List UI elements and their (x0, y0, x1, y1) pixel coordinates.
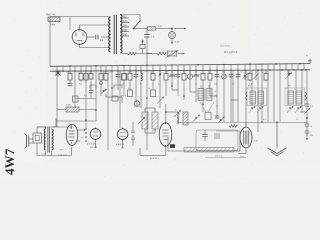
resistor R1 (157, 52, 166, 55)
wire anode 1 (79, 25, 81, 30)
svg-text:2M: 2M (103, 72, 106, 74)
wire avc link (216, 130, 240, 132)
field coil box (33, 133, 42, 143)
resistor R14 (195, 70, 197, 73)
svg-text:4k: 4k (99, 84, 101, 86)
svg-text:mw 1 2F: mw 1 2F (87, 144, 96, 146)
resistor R17 (249, 70, 251, 73)
svg-text:ECH 11 x: ECH 11 x (150, 158, 160, 160)
phone jack symbol (56, 71, 61, 76)
resistor R3 (80, 70, 82, 73)
column right of V2 (132, 122, 134, 130)
IF1 funnel (200, 102, 206, 112)
capacitor C1 (95, 35, 97, 40)
capacitor C8 (216, 70, 218, 74)
wire link f (231, 99, 238, 101)
svg-text:6,3V: 6,3V (158, 26, 163, 28)
svg-text:4W: 4W (310, 135, 313, 137)
resistor R5 (90, 70, 92, 73)
IF transformer IF3 (285, 88, 305, 106)
svg-text:50: 50 (310, 126, 312, 128)
wire grid line (177, 122, 307, 124)
wire link (75, 98, 96, 100)
resistor R2 (69, 70, 71, 73)
output tube V4 (66, 124, 78, 145)
trimmer C18 (304, 108, 310, 114)
potentiometer P2 (volume) (184, 148, 234, 153)
resistor R23 (hatched) (183, 112, 188, 125)
capacitor C19 (305, 123, 309, 125)
IF1 winding a (198, 89, 204, 101)
wire bottom frame (167, 137, 169, 151)
transformer T1 secondary (120, 15, 122, 54)
svg-text:0,1: 0,1 (310, 106, 313, 108)
resistor R18 (265, 70, 267, 73)
wire link d (190, 91, 196, 93)
svg-text:2M: 2M (89, 72, 92, 74)
IF2 trimmer b (259, 107, 261, 109)
resistor R6 (100, 70, 102, 73)
IF3 trimmer a (289, 107, 291, 109)
output transformer T2 winding a (44, 129, 46, 150)
IF2 entry (246, 92, 247, 100)
resistor R15 (202, 70, 204, 73)
potentiometer P1 (168, 51, 177, 56)
junction dots band (146, 97, 148, 99)
wire V2 stem (122, 140, 124, 149)
wire heater bus (136, 53, 157, 55)
loudspeaker LS (26, 136, 28, 147)
svg-text:8k: 8k (140, 84, 142, 86)
chassis frame (196, 130, 238, 151)
wire right column (306, 100, 308, 104)
IF transformer IF2 (247, 88, 267, 106)
svg-text:6,3V: 6,3V (175, 42, 180, 44)
wire T2 top (52, 126, 72, 128)
IF3 trimmer b (297, 107, 299, 109)
svg-text:1M: 1M (222, 72, 225, 74)
capacitor C2b (142, 40, 144, 45)
resistor R12 (171, 70, 173, 73)
svg-text:5k: 5k (195, 84, 197, 86)
capacitor C23 (block) (170, 144, 175, 148)
wire P1 arrow (178, 53, 185, 55)
wire rail junction ticks (56, 66, 58, 71)
svg-text:4W7: 4W7 (2, 148, 17, 175)
wire HT rail (50, 64, 310, 67)
wire V6 top (245, 123, 247, 128)
transformer voltage taps (122, 17, 130, 19)
transformer T1 primary (109, 17, 111, 52)
voltage selector switch S1 (134, 21, 141, 29)
inductor L2 (141, 73, 142, 81)
resistor R19 (112, 96, 118, 101)
resistor R20 (73, 96, 79, 102)
wire fuse drop (50, 16, 60, 18)
svg-text:DrV 1,2H 4 F: DrV 1,2H 4 F (224, 51, 238, 54)
wire AVC rail (50, 70, 310, 71)
trimmer T2 (159, 70, 161, 74)
wire C2 down (146, 37, 148, 65)
rail dots extra (62, 70, 64, 72)
inductor L1 (127, 52, 136, 55)
IF3 entry (305, 92, 306, 100)
svg-text:1n: 1n (216, 106, 218, 108)
svg-text:f1: f1 (215, 91, 217, 93)
trimmer capacitor C9 (223, 70, 225, 73)
wire bridge b (114, 85, 122, 89)
wire bridge a (90, 85, 96, 89)
capacitor C24 (89, 90, 93, 92)
resistor R21 (128, 90, 133, 97)
wire osc links (145, 107, 155, 109)
svg-text:10k: 10k (214, 84, 217, 86)
wire plus terminal (309, 59, 311, 64)
tube V1 (EBF11) (90, 129, 101, 140)
IF1 trimmer (195, 117, 197, 119)
trimmer above V3 (174, 110, 181, 117)
oscillator coil L3 (142, 112, 148, 129)
transformer T1 core (113, 15, 115, 54)
wire vertical drops (56, 71, 58, 128)
svg-text:4k: 4k (104, 91, 106, 93)
wire mains top (60, 16, 110, 18)
tube V2 (ECH11) (117, 129, 128, 140)
fuse F2 (148, 27, 156, 31)
output transformer T2 core (47, 128, 49, 153)
svg-text:50k: 50k (79, 84, 82, 86)
svg-text:AW7 4A: AW7 4A (46, 13, 56, 17)
svg-text:12F CB: 12F CB (90, 147, 97, 149)
wire link g (300, 111, 307, 113)
wire V6 bottom (245, 148, 247, 154)
svg-text:E 4W 2F: E 4W 2F (116, 144, 125, 146)
wire link c (172, 89, 178, 91)
resistor R10 (152, 70, 154, 73)
capacitor C3 (69, 82, 71, 84)
IF2 trimmer a (251, 107, 253, 109)
capacitor C11 (237, 70, 239, 74)
resistor R9 (129, 70, 131, 73)
junction arrow (103, 90, 105, 92)
wire heater arrow right (174, 28, 186, 30)
wire V4 right (77, 129, 84, 131)
output transformer T2 winding b (52, 129, 54, 150)
tube V3 (ECH11) (159, 123, 172, 147)
capacitor C17 (305, 103, 309, 105)
resistor R7 (105, 70, 107, 73)
svg-text:2k: 2k (175, 110, 177, 112)
capacitor C2 (146, 29, 148, 35)
capacitor C16 (215, 115, 219, 117)
wire heater winding (122, 53, 128, 55)
svg-text:2k: 2k (171, 84, 173, 86)
resistor R11 (165, 70, 167, 73)
resistor R8 (123, 70, 125, 73)
wire to transformer top (69, 17, 71, 31)
wire anode 2 (79, 44, 81, 47)
trimmer capacitor C13 (255, 70, 257, 80)
wire V1 stem (95, 139, 97, 148)
resistor R22 (151, 90, 156, 97)
meter symbol M1 (134, 101, 140, 107)
wire heater line (134, 28, 148, 30)
svg-text:m4w: m4w (50, 24, 55, 27)
capacitor C10 (230, 70, 232, 74)
trimmer capacitor C7 (189, 70, 191, 73)
resistor R24 (229, 125, 237, 128)
wire V3 top (165, 104, 167, 123)
wire V3 stem (165, 146, 167, 155)
wire cathode (87, 36, 95, 38)
svg-text:1 W: 1 W (254, 141, 258, 143)
capacitor C5 (135, 70, 137, 74)
resistor R16 (209, 70, 211, 73)
dial lamp LA1 (171, 29, 173, 32)
resistor R13 (183, 70, 185, 73)
wire lamp down arrow (171, 38, 173, 44)
capacitor C21 (202, 134, 208, 136)
IF1 winding b (206, 89, 212, 101)
coil L5 (177, 112, 179, 124)
capacitor C22 (214, 133, 220, 135)
svg-text:300 1 m: 300 1 m (215, 156, 223, 158)
capacitor C20 (305, 130, 309, 132)
paper speckle texture (103, 27, 106, 30)
trimmer capacitor C12 (244, 70, 246, 80)
svg-text:Drahtf(2b) u: Drahtf(2b) u (220, 45, 232, 48)
wire left vertical (49, 22, 51, 67)
wire bottom line 2 (205, 157, 246, 159)
magic eye tube V6 (240, 127, 252, 148)
wire link e (210, 95, 217, 97)
junction dot (306, 117, 308, 119)
trimmer above coil (157, 97, 164, 104)
ground chevron (276, 123, 278, 149)
svg-text:+: + (306, 54, 308, 58)
terminal dots V1 (85, 128, 87, 130)
capacitor C6 (177, 70, 179, 74)
svg-text:f2: f2 (215, 96, 217, 98)
wire secondary top (122, 14, 141, 16)
padder box (205, 113, 211, 120)
trimmer capacitor C14 (288, 70, 290, 76)
svg-text:1000: 1000 (66, 105, 72, 107)
wire bottom left (36, 143, 38, 156)
rectifier tube V5 (72, 30, 87, 45)
resistor R4 (85, 70, 87, 73)
oscillator coil L4 (152, 112, 158, 129)
capacitor C4 (117, 70, 119, 74)
wire link b (105, 94, 107, 98)
wire speaker top (56, 120, 96, 122)
svg-text:1k: 1k (122, 84, 124, 86)
trimmer C15 (220, 119, 222, 121)
